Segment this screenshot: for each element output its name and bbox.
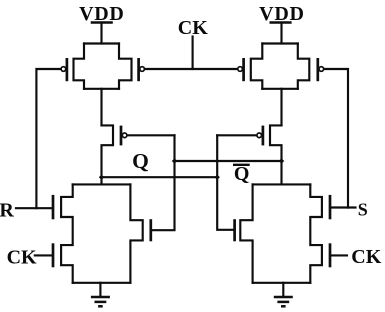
svg-text:VDD: VDD (259, 3, 304, 25)
svg-text:CK: CK (178, 17, 208, 39)
svg-text:Q: Q (234, 163, 250, 185)
svg-text:CK: CK (351, 246, 381, 268)
svg-text:Q: Q (132, 149, 149, 173)
svg-text:VDD: VDD (79, 3, 124, 25)
svg-text:R: R (0, 199, 14, 221)
svg-text:S: S (358, 200, 368, 220)
svg-text:CK: CK (7, 246, 37, 268)
